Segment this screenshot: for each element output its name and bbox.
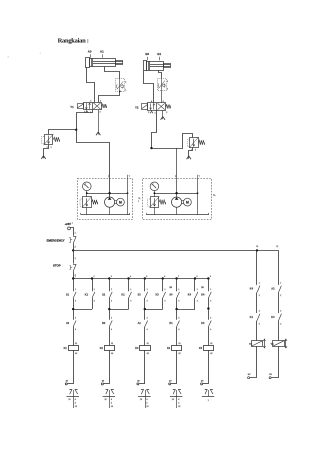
rail 2	[73, 278, 208, 280]
svg-text:3: 3	[75, 403, 76, 405]
wire cylinder B rod side to flow control	[159, 70, 162, 78]
relay coil K4	[172, 346, 182, 351]
svg-text:10: 10	[68, 399, 70, 401]
valve V2 return spring	[166, 105, 171, 109]
svg-text:4: 4	[111, 328, 112, 331]
svg-text:3: 3	[147, 300, 148, 302]
wire solenoid to 0V terminal	[250, 346, 257, 377]
wire valve B port 1 to supply junction B	[152, 110, 157, 148]
wire row2 to coil K5	[208, 327, 210, 346]
svg-text:2: 2	[259, 295, 260, 297]
svg-text:A2: A2	[111, 352, 113, 355]
flow control valve F1	[116, 79, 125, 92]
proportional arrows	[285, 339, 287, 348]
svg-text:4: 4	[210, 328, 211, 331]
wire solenoid to 0V terminal	[271, 346, 278, 377]
contact S1 row1 at x73.2	[73, 279, 75, 292]
limit switch contact block	[69, 390, 72, 395]
contact K3 right branch	[279, 314, 282, 321]
wire gauge A to manifold	[86, 191, 88, 197]
svg-text:A2: A2	[210, 352, 212, 355]
svg-text:3: 3	[130, 300, 131, 302]
svg-text:Y1: Y1	[70, 105, 74, 109]
wire valve A port 3 exhaust line	[98, 110, 100, 135]
position ruler ticks	[90, 54, 92, 57]
svg-text:1: 1	[155, 113, 156, 115]
svg-text:2: 2	[167, 81, 168, 83]
wire relief B to tank	[189, 147, 193, 158]
contact S4 row1 at x176.6	[176, 279, 178, 292]
branch 10 wire	[256, 250, 258, 285]
cylinder body	[144, 61, 147, 71]
svg-text:2: 2	[100, 101, 101, 103]
valve V2 solenoid box	[142, 104, 148, 110]
svg-text:A1: A1	[178, 342, 180, 345]
position ruler ticks	[147, 57, 149, 60]
relief valve Z2 in unit A	[83, 197, 92, 208]
svg-text:A1: A1	[100, 50, 104, 54]
svg-text:10: 10	[256, 246, 258, 248]
svg-text:1: 1	[94, 289, 95, 291]
svg-text:4: 4	[280, 322, 281, 325]
relief valve Z4 in unit B	[151, 197, 159, 208]
svg-text:3: 3	[259, 311, 260, 313]
svg-text:3: 3	[100, 112, 101, 114]
contact K1 row1 at x92.0	[92, 279, 94, 292]
svg-text:3: 3	[195, 150, 196, 152]
wire flow control to valve A port 2	[99, 91, 120, 102]
svg-text:1: 1	[75, 232, 76, 234]
wire junction B down to pump unit B	[176, 148, 178, 197]
svg-text:10: 10	[178, 406, 180, 408]
wire between contacts	[278, 293, 280, 314]
shaft pump-motor B	[182, 200, 184, 202]
terminal 0V	[248, 377, 250, 379]
exhaust E2	[161, 117, 163, 120]
pressure gauge G2	[150, 182, 159, 191]
relay coil K2	[105, 346, 115, 351]
svg-text:1: 1	[125, 89, 126, 91]
exhaust E4	[187, 156, 189, 159]
rail 1	[73, 250, 278, 252]
svg-text:11: 11	[276, 246, 278, 248]
pressure relief valve Z3	[190, 138, 199, 148]
node rail2 branch 5	[144, 277, 146, 279]
wire cylinder A cap to valve port 4	[87, 67, 95, 102]
svg-text:3: 3	[210, 300, 211, 302]
svg-text:M: M	[186, 201, 189, 205]
svg-text:A0: A0	[88, 50, 92, 54]
motor M1	[117, 198, 125, 206]
wire row2 to coil K4	[176, 327, 178, 346]
svg-text:B1: B1	[157, 52, 161, 56]
node rail2 branch 9	[207, 277, 209, 279]
terminal circle	[169, 383, 171, 385]
contact K1 right branch	[257, 314, 260, 321]
svg-text:3: 3	[147, 318, 148, 320]
svg-text:3: 3	[111, 403, 112, 405]
valve V1 solenoid box	[78, 104, 84, 109]
wire coil to terminal	[144, 350, 146, 384]
wire relief Z2 to tank line	[86, 207, 88, 215]
svg-text:A1: A1	[111, 342, 113, 345]
cylinder body	[86, 58, 90, 68]
node rail2 branch 3	[108, 277, 110, 279]
wire coil to terminal	[208, 350, 210, 384]
shaft pump-motor A	[115, 200, 117, 202]
svg-text:A1: A1	[210, 342, 212, 345]
contact S2 row1 at x109.3	[109, 279, 111, 292]
branch 11 corner	[278, 250, 280, 285]
valve V2 port 5 exhaust	[151, 110, 153, 111]
node rail2 branch 7	[175, 277, 177, 279]
svg-text:3: 3	[111, 318, 112, 320]
seal-in join at x176.6	[194, 298, 196, 309]
svg-text:A1: A1	[75, 342, 77, 345]
svg-text:1: 1	[75, 289, 76, 291]
svg-text:10: 10	[140, 399, 142, 401]
wire to solenoid Y2	[256, 321, 258, 341]
contact K4 row1 at x208.4	[208, 279, 210, 292]
terminal circle	[137, 383, 139, 385]
wire stop to rail 2	[73, 271, 75, 278]
svg-text:A2: A2	[147, 352, 149, 355]
wire coil to terminal	[73, 350, 75, 384]
tank line A	[81, 214, 130, 216]
svg-text:3: 3	[178, 318, 179, 320]
stray mark	[8, 56, 9, 57]
node supply B junction	[150, 147, 152, 149]
terminal circle	[201, 383, 203, 385]
wire gauge B to manifold	[154, 191, 156, 197]
valve V2 body 5/2	[148, 103, 166, 111]
svg-text:4: 4	[178, 328, 179, 331]
svg-text:1: 1	[280, 283, 281, 285]
svg-text:1: 1	[208, 400, 209, 402]
svg-text:1: 1	[165, 289, 166, 291]
svg-text:5: 5	[148, 112, 149, 114]
svg-text:3: 3	[146, 403, 147, 405]
manifold line A	[87, 193, 128, 195]
svg-text:2: 2	[163, 101, 164, 103]
contact K3 row1 at x162.7	[162, 279, 164, 292]
contact B0 row2 at x109.3	[109, 309, 111, 320]
svg-text:1: 1	[147, 289, 148, 291]
contact A1 row2 at x144.8	[144, 309, 146, 320]
limit switch contact block	[141, 390, 144, 395]
power unit A enclosure	[78, 179, 133, 220]
wire coil to terminal	[176, 350, 178, 384]
node rail2 branch 8	[194, 277, 196, 279]
svg-text:3: 3	[111, 300, 112, 302]
manifold line B	[154, 193, 197, 195]
contact K3 row2 at x208.4	[208, 309, 210, 320]
svg-text:10: 10	[172, 399, 174, 401]
wire junction A down to pump unit	[77, 130, 110, 197]
svg-text:8: 8	[197, 276, 198, 278]
wire between contacts	[256, 293, 258, 314]
svg-text:3: 3	[111, 276, 112, 278]
pressure gauge G1	[83, 182, 92, 191]
node rail2 branch 4	[127, 277, 129, 279]
node rail2 branch 2	[91, 277, 93, 279]
valve V1 port 5 exhaust	[86, 110, 88, 111]
svg-text:10: 10	[105, 399, 107, 401]
seal-in join at x109.3	[128, 298, 130, 309]
svg-text:2: 2	[280, 295, 281, 297]
wire rail1 to stop	[73, 250, 75, 263]
tank return line A	[127, 178, 129, 214]
svg-text:2: 2	[125, 82, 126, 84]
contact K4 row1 at x195.0	[194, 279, 196, 292]
svg-text:4: 4	[147, 328, 148, 331]
wire relief Z4 to tank line	[154, 207, 156, 215]
terminal circle	[101, 383, 103, 385]
tank line B	[146, 214, 208, 216]
svg-text:1: 1	[75, 276, 76, 278]
wire cylinder B cap to valve port 4	[144, 71, 154, 103]
wire relief A to junction	[49, 130, 77, 135]
terminal circle	[65, 383, 67, 385]
wire relief A to tank	[44, 145, 49, 159]
exhaust E3	[41, 156, 43, 159]
wire valve B port 3 exhaust	[162, 110, 164, 119]
tank return line B	[197, 178, 199, 214]
motor M2	[184, 198, 192, 206]
svg-text:1: 1	[259, 283, 260, 285]
svg-text:M: M	[119, 201, 122, 205]
svg-text:A2: A2	[178, 352, 180, 355]
svg-text:3: 3	[165, 300, 166, 302]
svg-text:4: 4	[75, 328, 76, 331]
exhaust E1	[96, 132, 98, 135]
svg-text:10: 10	[111, 406, 113, 408]
svg-text:B0: B0	[145, 52, 149, 56]
svg-text:3: 3	[197, 300, 198, 302]
node rail2 branch 1	[72, 277, 74, 279]
node supply A junction	[75, 129, 77, 131]
wire row2 to coil K1	[73, 327, 75, 346]
svg-text:4: 4	[90, 100, 91, 103]
svg-text:3: 3	[75, 318, 76, 320]
contact K2 row1 at x128.6	[128, 279, 130, 292]
contact S3 row1 at x144.8	[144, 279, 146, 292]
valve V1 body 5/2	[84, 103, 102, 110]
wire row2 to coil K3	[144, 327, 146, 346]
svg-text:STOP: STOP	[53, 263, 61, 267]
relay coil K3	[140, 346, 151, 351]
svg-text:+24V: +24V	[65, 222, 72, 226]
svg-text:3: 3	[94, 300, 95, 302]
wire junction B to relief B	[152, 148, 184, 150]
svg-text:10: 10	[146, 406, 148, 408]
svg-text:1: 1	[167, 89, 168, 91]
node rail1 left	[72, 249, 74, 251]
power unit B enclosure	[143, 179, 212, 220]
limit switch contact block	[106, 390, 109, 395]
svg-text:3: 3	[210, 318, 211, 320]
svg-text:3: 3	[178, 300, 179, 302]
svg-text:2: 2	[75, 247, 76, 249]
proportional arrows	[264, 339, 266, 348]
svg-text:Rangkaian :: Rangkaian :	[58, 38, 89, 45]
wire flow control B to valve port 2	[161, 91, 163, 103]
svg-text:3: 3	[178, 403, 179, 405]
wire to solenoid Y4	[278, 321, 280, 341]
seal-in join at x144.8	[162, 298, 164, 309]
svg-text:4: 4	[259, 322, 260, 325]
svg-text:1: 1	[111, 289, 112, 291]
wire coil to terminal	[109, 350, 111, 384]
contact A2 right branch	[279, 286, 282, 293]
svg-text:6: 6	[164, 276, 165, 278]
relay coil K1	[69, 346, 79, 351]
contact A0 row2 at x73.2	[73, 309, 75, 320]
valve V1 return spring	[102, 104, 107, 108]
terminal 0V	[269, 377, 271, 379]
pump P2	[172, 197, 182, 207]
svg-text:A1: A1	[147, 342, 149, 345]
svg-text:5: 5	[146, 276, 147, 278]
wire valve A port 1 to supply junction	[77, 110, 93, 130]
pump P1	[105, 197, 115, 207]
limit switch contact block	[205, 390, 208, 395]
node rail1 branch 10	[256, 249, 258, 251]
svg-text:1: 1	[130, 289, 131, 291]
svg-text:4: 4	[130, 275, 131, 278]
svg-text:9: 9	[210, 276, 211, 278]
svg-text:1: 1	[72, 222, 73, 224]
svg-text:4: 4	[151, 100, 152, 103]
limit switch contact block	[173, 390, 176, 395]
contact B1 row2 at x176.6	[176, 309, 178, 320]
svg-text:3: 3	[75, 300, 76, 302]
contact K4 right branch	[257, 286, 260, 293]
pressure relief valve Z1	[45, 135, 53, 145]
wire emergency to rail 1	[73, 244, 75, 251]
flow control valve F2	[158, 79, 167, 91]
svg-text:3: 3	[51, 147, 52, 149]
svg-text:1: 1	[178, 289, 179, 291]
wire row2 to coil K2	[109, 327, 111, 346]
svg-text:3: 3	[75, 258, 76, 260]
svg-text:3: 3	[166, 112, 167, 114]
node rail2 branch 6	[162, 277, 164, 279]
relay coil K5	[204, 346, 214, 351]
wire cylinder A rod side to flow control	[105, 67, 120, 80]
seal-in join at x73.2	[92, 298, 94, 309]
svg-text:1: 1	[197, 289, 198, 291]
branch 9 wire through	[208, 298, 210, 309]
svg-text:2: 2	[94, 276, 95, 278]
svg-text:1: 1	[210, 289, 211, 291]
svg-text:A2: A2	[75, 352, 77, 355]
svg-text:3: 3	[280, 311, 281, 313]
svg-text:EMERGENCY: EMERGENCY	[47, 238, 65, 242]
svg-text:7: 7	[178, 276, 179, 278]
svg-text:Y2: Y2	[135, 105, 139, 109]
svg-text:10: 10	[75, 406, 77, 408]
